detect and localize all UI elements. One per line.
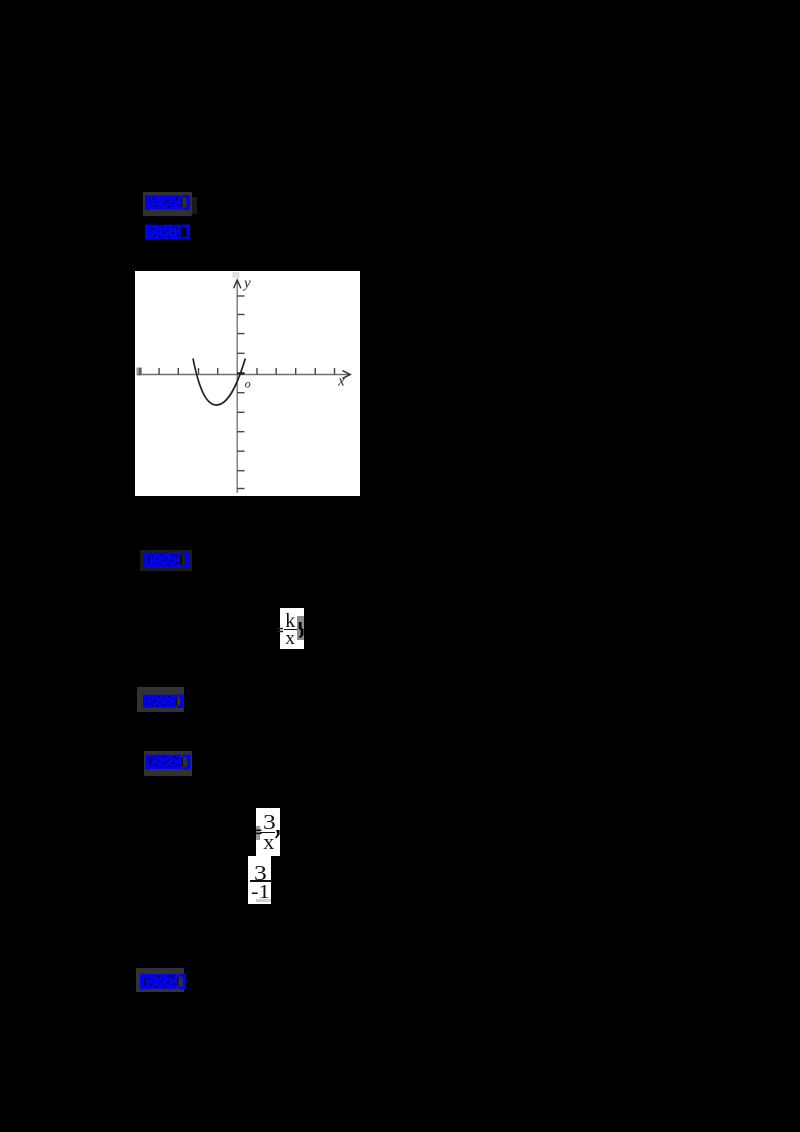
svg-text:y: y — [242, 275, 251, 291]
denominator -1 — [251, 884, 275, 900]
dark glyph fragment overlapping k/x right edge — [298, 622, 305, 638]
svg-text:x: x — [337, 374, 345, 390]
highlight box behind label 1 — [143, 192, 192, 216]
x-axis — [138, 374, 350, 376]
bold tick dash at origin — [237, 372, 244, 374]
x-axis arrowhead — [343, 371, 351, 379]
label 1 blue tag — [145, 194, 190, 211]
denominator x — [263, 834, 283, 850]
equals sign of formula 2 — [255, 829, 262, 835]
denominator x — [285, 629, 305, 648]
label 3 blue tag — [144, 552, 189, 568]
gray patch at left edge of formula 2 — [256, 826, 261, 840]
light gray strip at bottom of formula 3 — [256, 899, 271, 903]
label 5 blue tag — [145, 754, 191, 770]
graph figure white box — [135, 271, 360, 496]
label 2 blue tag — [144, 224, 191, 240]
formula image 2: =3/x, on white — [256, 808, 280, 856]
svg-text:o: o — [245, 377, 251, 391]
label 3 faint highlight — [140, 550, 192, 571]
small gray artifact at top of y-axis — [233, 272, 240, 278]
gray blob at left end of x-axis — [137, 368, 143, 376]
label 4 blue tag — [141, 694, 186, 709]
comma after 3/x — [275, 830, 281, 839]
numerator 3 of second fraction — [254, 865, 278, 881]
equals sign before k/x — [277, 627, 284, 633]
fraction bar of 3/x — [260, 832, 275, 834]
fraction bar of k/x — [284, 629, 297, 631]
numerator k — [285, 612, 305, 631]
formula image 3: 3/-1 on white — [248, 856, 272, 905]
label 6 blue tag — [140, 973, 186, 990]
highlight box behind label 5 — [144, 751, 192, 776]
formula image 1: k/x fraction on white — [280, 608, 304, 649]
faint gray speck right of label 1 — [192, 197, 197, 214]
y-axis arrowhead — [234, 280, 241, 288]
fraction bar of 3/-1 — [250, 880, 271, 882]
x-axis ticks — [140, 368, 335, 375]
numerator 3 — [263, 814, 287, 830]
graph axes and parabola — [135, 271, 360, 496]
highlight box behind label 6 — [136, 968, 184, 992]
parabola curve — [193, 359, 245, 406]
y-axis — [236, 281, 238, 493]
gray patch right of k/x — [297, 616, 304, 640]
y-axis ticks — [237, 296, 244, 489]
highlight box behind label 4 — [137, 687, 185, 712]
